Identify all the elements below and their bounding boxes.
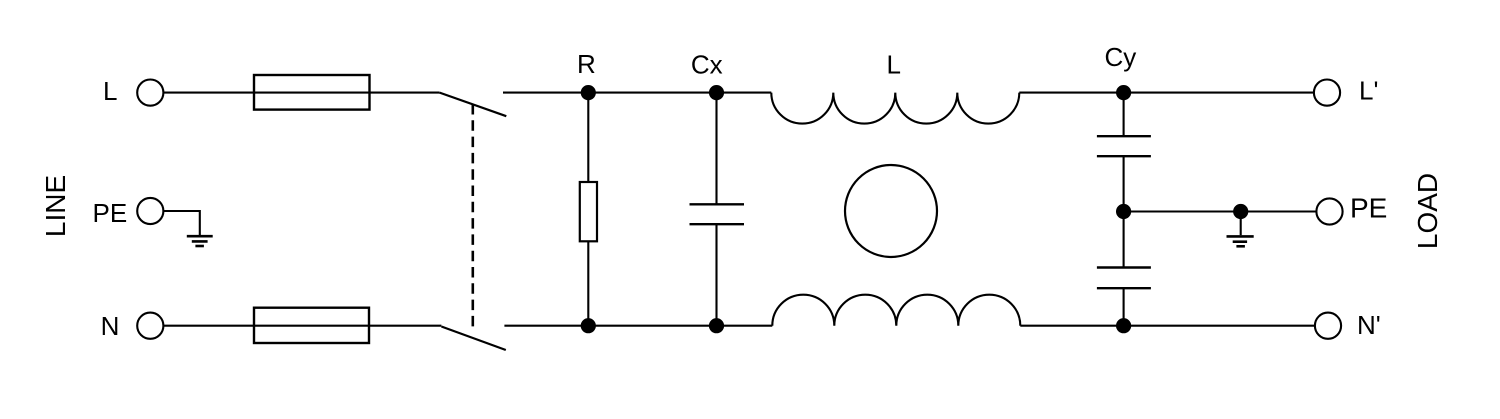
wire PE to ground	[163, 211, 199, 235]
svg-text:N: N	[101, 311, 120, 341]
terminal N	[137, 313, 163, 339]
ground (load side)	[1240, 212, 1242, 236]
capacitor Cy lower	[1123, 212, 1125, 268]
node: R top	[581, 85, 596, 100]
terminal N'	[1315, 313, 1341, 339]
svg-text:PE: PE	[1350, 193, 1387, 224]
capacitor Cy upper	[1123, 93, 1125, 137]
wire top rail: switch to choke	[503, 92, 771, 94]
svg-text:LINE: LINE	[40, 175, 71, 237]
svg-text:Cx: Cx	[691, 50, 723, 80]
svg-text:PE: PE	[93, 198, 128, 228]
wire middle: Cy to PE'	[1124, 210, 1317, 212]
node: Cx bottom	[709, 318, 724, 333]
terminal L	[137, 80, 163, 106]
wire L to switch	[163, 92, 439, 94]
wire bottom rail: choke to N'	[1020, 325, 1315, 327]
terminal L'	[1314, 80, 1340, 106]
terminal PE (load side)	[1316, 198, 1342, 224]
wire bottom rail: switch to choke	[504, 325, 772, 327]
svg-text:N': N'	[1357, 310, 1381, 340]
node: Cy middle	[1116, 204, 1131, 219]
svg-text:LOAD: LOAD	[1412, 173, 1443, 249]
terminal PE (line side)	[137, 198, 163, 224]
resistor R	[587, 93, 589, 182]
switch mechanical link (dashed)	[471, 104, 474, 327]
node: ground tap	[1233, 204, 1248, 219]
choke L bottom winding	[772, 295, 1020, 326]
capacitor Cx	[715, 93, 717, 205]
ground (line side)	[187, 236, 213, 246]
wire N to switch	[163, 325, 441, 327]
node: Cy top	[1116, 85, 1131, 100]
node: Cy bottom	[1116, 318, 1131, 333]
node: R bottom	[581, 318, 596, 333]
node: Cx top	[709, 85, 724, 100]
wire top rail: choke to Cy	[1019, 92, 1314, 94]
svg-text:L: L	[103, 76, 117, 106]
fuse F1	[254, 75, 370, 110]
switch S2 blade	[441, 327, 505, 351]
switch S1 blade	[440, 93, 507, 117]
svg-text:L: L	[887, 50, 901, 80]
choke L top winding	[771, 93, 1019, 124]
fuse F2	[254, 308, 369, 343]
svg-text:R: R	[577, 49, 596, 79]
svg-text:L': L'	[1359, 76, 1378, 106]
svg-text:Cy: Cy	[1105, 42, 1137, 72]
choke core circle	[845, 165, 937, 257]
